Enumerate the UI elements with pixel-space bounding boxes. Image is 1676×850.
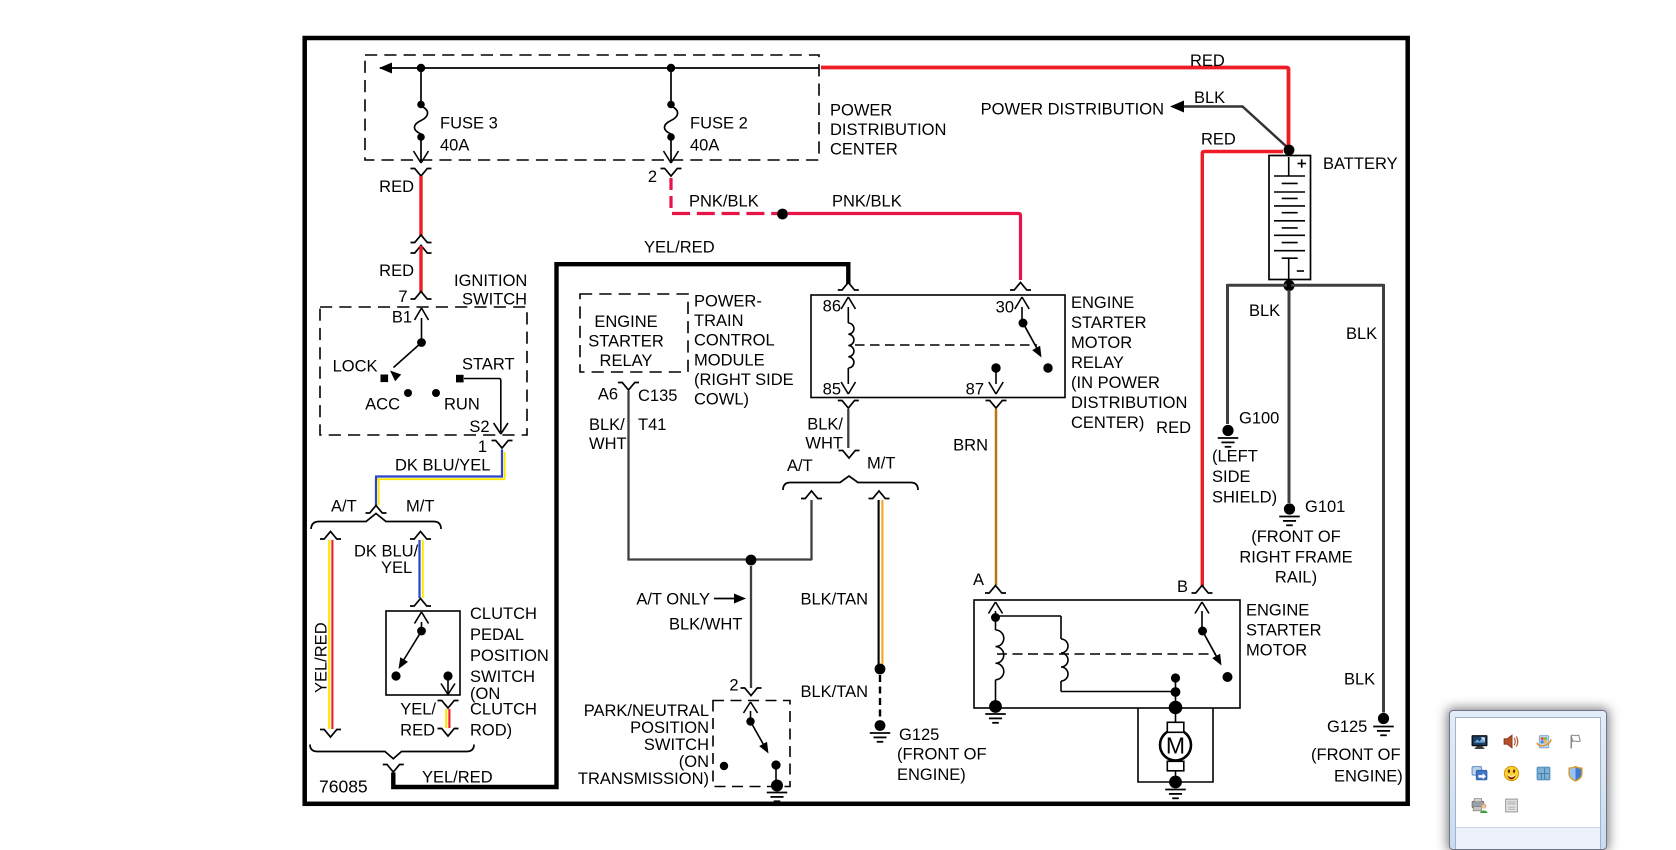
svg-text:YEL: YEL <box>381 559 412 577</box>
svg-text:RED: RED <box>1190 52 1225 70</box>
svg-text:START: START <box>462 356 515 374</box>
svg-text:WHT: WHT <box>805 435 843 453</box>
svg-text:ENGINE: ENGINE <box>594 313 657 331</box>
svg-text:40A: 40A <box>690 137 719 155</box>
svg-text:ENGINE: ENGINE <box>1071 294 1134 312</box>
svg-text:STARTER: STARTER <box>588 333 664 351</box>
svg-text:7: 7 <box>398 288 407 306</box>
svg-text:WHT: WHT <box>589 435 627 453</box>
svg-text:M: M <box>1166 733 1185 759</box>
svg-text:BLK: BLK <box>1249 302 1280 320</box>
svg-text:STARTER: STARTER <box>1071 314 1147 332</box>
svg-text:RIGHT FRAME: RIGHT FRAME <box>1239 549 1352 567</box>
svg-text:LOCK: LOCK <box>333 358 378 376</box>
svg-text:SWITCH: SWITCH <box>644 736 709 754</box>
svg-text:PNK/BLK: PNK/BLK <box>832 193 902 211</box>
svg-text:SWITCH: SWITCH <box>462 291 527 309</box>
svg-text:PEDAL: PEDAL <box>470 626 524 644</box>
svg-text:(FRONT OF: (FRONT OF <box>897 746 987 764</box>
svg-text:RED: RED <box>379 178 414 196</box>
svg-text:A6: A6 <box>598 386 618 404</box>
svg-text:PARK/NEUTRAL: PARK/NEUTRAL <box>584 702 709 720</box>
svg-text:ROD): ROD) <box>470 722 512 740</box>
svg-text:POWER DISTRIBUTION: POWER DISTRIBUTION <box>981 101 1164 119</box>
svg-text:IGNITION: IGNITION <box>454 272 527 290</box>
svg-text:ACC: ACC <box>365 396 400 414</box>
svg-text:CLUTCH: CLUTCH <box>470 701 537 719</box>
svg-text:MODULE: MODULE <box>694 351 765 369</box>
svg-text:T41: T41 <box>638 416 666 434</box>
svg-text:POWER: POWER <box>830 102 892 120</box>
svg-text:CENTER): CENTER) <box>1071 414 1144 432</box>
svg-text:(LEFT: (LEFT <box>1212 448 1258 466</box>
svg-text:76085: 76085 <box>319 777 368 797</box>
svg-text:ENGINE): ENGINE) <box>897 766 966 784</box>
svg-text:87: 87 <box>966 381 984 399</box>
svg-text:DK BLU/: DK BLU/ <box>354 543 419 561</box>
svg-text:CLUTCH: CLUTCH <box>470 605 537 623</box>
svg-text:(RIGHT SIDE: (RIGHT SIDE <box>694 371 794 389</box>
svg-text:BLK: BLK <box>1194 89 1225 107</box>
svg-text:RED: RED <box>1156 419 1191 437</box>
svg-text:DK BLU/YEL: DK BLU/YEL <box>395 457 490 475</box>
svg-text:BLK: BLK <box>1346 325 1377 343</box>
svg-text:BLK/: BLK/ <box>589 416 625 434</box>
svg-text:A/T ONLY: A/T ONLY <box>636 591 710 609</box>
svg-text:BATTERY: BATTERY <box>1323 155 1398 173</box>
svg-text:CENTER: CENTER <box>830 141 898 159</box>
svg-text:TRAIN: TRAIN <box>694 312 744 330</box>
svg-text:MOTOR: MOTOR <box>1246 642 1307 660</box>
svg-text:BLK/TAN: BLK/TAN <box>800 591 868 609</box>
svg-text:A: A <box>973 571 984 589</box>
svg-text:SWITCH: SWITCH <box>470 668 535 686</box>
svg-text:YEL/RED: YEL/RED <box>422 769 493 787</box>
svg-text:BLK: BLK <box>1344 671 1375 689</box>
svg-text:YEL/RED: YEL/RED <box>644 239 715 257</box>
svg-text:G101: G101 <box>1305 498 1345 516</box>
svg-text:CONTROL: CONTROL <box>694 332 775 350</box>
svg-text:ENGINE): ENGINE) <box>1334 768 1403 786</box>
svg-text:B: B <box>1177 578 1188 596</box>
svg-text:MOTOR: MOTOR <box>1071 334 1132 352</box>
svg-text:M/T: M/T <box>406 498 434 516</box>
svg-text:SIDE: SIDE <box>1212 468 1251 486</box>
svg-text:(FRONT OF: (FRONT OF <box>1311 746 1401 764</box>
svg-text:(IN POWER: (IN POWER <box>1071 374 1160 392</box>
svg-text:ENGINE: ENGINE <box>1246 602 1309 620</box>
svg-text:G125: G125 <box>899 726 939 744</box>
svg-text:M/T: M/T <box>867 455 895 473</box>
svg-text:RUN: RUN <box>444 396 480 414</box>
svg-text:YEL/: YEL/ <box>400 701 436 719</box>
svg-text:POSITION: POSITION <box>470 647 549 665</box>
svg-text:DISTRIBUTION: DISTRIBUTION <box>1071 394 1187 412</box>
svg-text:POSITION: POSITION <box>630 719 709 737</box>
svg-text:RELAY: RELAY <box>600 352 653 370</box>
svg-text:G125: G125 <box>1327 718 1367 736</box>
svg-text:RELAY: RELAY <box>1071 354 1124 372</box>
svg-text:40A: 40A <box>440 137 469 155</box>
svg-text:RED: RED <box>1201 131 1236 149</box>
svg-text:A/T: A/T <box>331 498 357 516</box>
svg-text:A/T: A/T <box>787 457 813 475</box>
svg-text:PNK/BLK: PNK/BLK <box>689 193 759 211</box>
svg-text:STARTER: STARTER <box>1246 622 1322 640</box>
svg-text:TRANSMISSION): TRANSMISSION) <box>578 770 709 788</box>
svg-text:COWL): COWL) <box>694 391 749 409</box>
svg-text:C135: C135 <box>638 387 677 405</box>
svg-text:FUSE 3: FUSE 3 <box>440 115 498 133</box>
svg-text:RED: RED <box>379 262 414 280</box>
svg-text:2: 2 <box>729 677 738 695</box>
svg-text:POWER-: POWER- <box>694 293 762 311</box>
svg-text:SHIELD): SHIELD) <box>1212 489 1277 507</box>
svg-text:DISTRIBUTION: DISTRIBUTION <box>830 121 946 139</box>
svg-text:86: 86 <box>823 298 841 316</box>
svg-text:FUSE 2: FUSE 2 <box>690 115 748 133</box>
svg-text:BLK/TAN: BLK/TAN <box>800 683 868 701</box>
svg-text:2: 2 <box>648 168 657 186</box>
svg-text:BLK/: BLK/ <box>807 416 843 434</box>
svg-text:(FRONT OF: (FRONT OF <box>1251 528 1341 546</box>
svg-text:RAIL): RAIL) <box>1275 569 1317 587</box>
svg-text:BRN: BRN <box>953 437 988 455</box>
svg-text:YEL/RED: YEL/RED <box>313 622 331 693</box>
svg-text:B1: B1 <box>392 309 412 327</box>
svg-text:S2: S2 <box>469 418 489 436</box>
svg-text:1: 1 <box>478 438 487 456</box>
svg-text:RED: RED <box>400 722 435 740</box>
svg-text:BLK/WHT: BLK/WHT <box>669 616 742 634</box>
svg-text:(ON: (ON <box>679 753 709 771</box>
svg-text:30: 30 <box>996 299 1014 317</box>
svg-text:G100: G100 <box>1239 410 1279 428</box>
svg-text:85: 85 <box>823 381 841 399</box>
